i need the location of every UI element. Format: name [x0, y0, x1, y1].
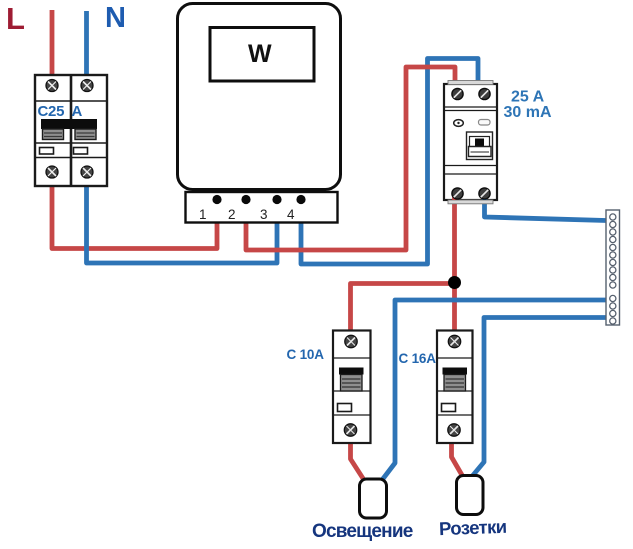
wire QF1 left pole output to meter terminal 1 (red)	[52, 185, 217, 249]
breaker SF1 indicator window	[338, 404, 352, 412]
RCD indicator window	[479, 120, 491, 126]
meter terminal dot 3	[272, 195, 281, 204]
meter terminal strip	[186, 192, 338, 223]
breaker SF1 C10 body	[333, 331, 371, 444]
breaker SF2 C16 body	[437, 331, 473, 444]
wire RCD neutral output to bus bar (blue)	[485, 194, 607, 221]
sockets load box	[457, 476, 484, 515]
RCD bottom terminal screws	[452, 188, 490, 199]
wire meter terminal 2 to RCD top-left input (red)	[246, 67, 455, 250]
wire N feed (blue) from top into breaker QF1 right pole	[84, 11, 89, 76]
svg-text:L: L	[6, 1, 25, 36]
bus bar screws	[610, 214, 616, 324]
RCD top terminal band	[448, 81, 493, 85]
lighting load box	[360, 479, 387, 518]
wire meter terminal 4 to RCD top-right input (blue)	[301, 59, 478, 265]
breaker SF1 toggle handle	[339, 368, 364, 392]
wire QF1 right pole output to meter terminal 3 (blue)	[87, 185, 278, 263]
RCD U1 body	[444, 84, 497, 200]
breaker QF1 toggle handle	[41, 119, 97, 140]
wire bus bar to lighting load (blue)	[382, 300, 606, 480]
svg-text:C 16A: C 16A	[399, 351, 437, 366]
wire breaker SF2 C16 output to sockets load (red)	[452, 441, 463, 476]
junction node on phase wire	[448, 276, 461, 289]
breaker QF1 indicator windows	[40, 148, 54, 155]
wire bus bar to sockets load (blue)	[472, 318, 607, 478]
svg-text:A: A	[72, 103, 83, 120]
wire junction branch to breaker SF1 C10 (red)	[351, 284, 455, 332]
svg-text:1: 1	[199, 207, 207, 222]
breaker SF2 indicator window	[442, 404, 456, 412]
meter W body	[178, 4, 341, 190]
breaker SF1 terminal screws	[344, 335, 357, 436]
meter display window	[210, 28, 314, 82]
svg-text:30 mA: 30 mA	[504, 104, 552, 121]
RCD bottom terminal band	[448, 200, 493, 204]
RCD top terminal screws	[452, 88, 490, 99]
RCD test button	[454, 120, 464, 127]
breaker SF2 toggle handle	[443, 368, 468, 392]
meter terminal dot 4	[296, 195, 305, 204]
wire breaker SF1 C10 output to lighting load (red)	[351, 441, 365, 480]
meter terminal dot 2	[241, 195, 250, 204]
neutral bus bar terminal block	[606, 210, 620, 325]
RCD toggle switch	[467, 132, 493, 160]
svg-text:2: 2	[228, 207, 236, 222]
svg-text:3: 3	[260, 207, 268, 222]
svg-text:W: W	[248, 40, 272, 68]
breaker QF1 double-pole C25 body	[35, 75, 107, 186]
svg-text:Освещение: Освещение	[312, 521, 413, 542]
meter terminal dot 1	[212, 195, 221, 204]
svg-text:C 10A: C 10A	[287, 347, 325, 362]
wire RCD phase output down through junction to breaker SF2 C16 (red)	[452, 194, 457, 331]
svg-text:Розетки: Розетки	[439, 516, 507, 539]
RCD bottom wire stubs over body	[452, 194, 457, 201]
svg-text:25 A: 25 A	[511, 89, 545, 106]
breaker QF1 terminal screws	[46, 80, 93, 179]
wire L feed (red) from top into breaker QF1 left pole	[50, 10, 55, 76]
svg-text:4: 4	[287, 207, 295, 222]
svg-text:N: N	[105, 2, 126, 34]
breaker SF2 terminal screws	[448, 335, 461, 436]
svg-text:C25: C25	[38, 103, 65, 120]
